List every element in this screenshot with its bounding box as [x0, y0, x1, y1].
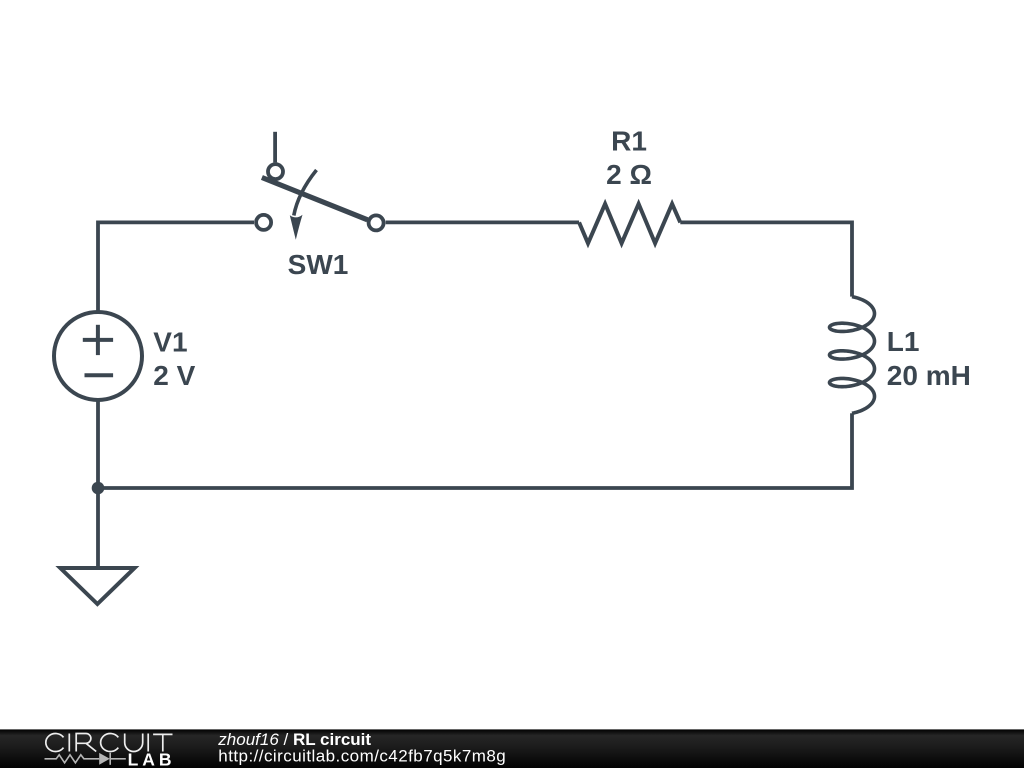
wire — [386, 220, 579, 224]
svg-text:V1: V1 — [153, 326, 187, 357]
wire — [680, 222, 852, 296]
svg-text:2 V: 2 V — [153, 360, 195, 391]
svg-text:2 Ω: 2 Ω — [606, 159, 652, 190]
svg-text:R1: R1 — [611, 126, 647, 157]
voltage source V1 — [54, 312, 142, 400]
ground — [60, 568, 134, 604]
resistor R1 — [579, 204, 680, 243]
svg-text:20 mH: 20 mH — [887, 360, 971, 391]
wire — [96, 488, 100, 568]
switch SW1 — [256, 132, 384, 240]
CircuitLab logo — [46, 734, 173, 752]
node A — [92, 482, 105, 495]
svg-text:LAB: LAB — [128, 749, 176, 768]
wire — [98, 400, 852, 488]
svg-text:http://circuitlab.com/c42fb7q5: http://circuitlab.com/c42fb7q5k7m8g — [218, 747, 506, 766]
svg-text:L1: L1 — [887, 326, 920, 357]
wire — [98, 222, 254, 312]
svg-text:SW1: SW1 — [288, 249, 349, 280]
inductor L1 — [830, 297, 875, 414]
footer bar — [0, 729, 1024, 768]
